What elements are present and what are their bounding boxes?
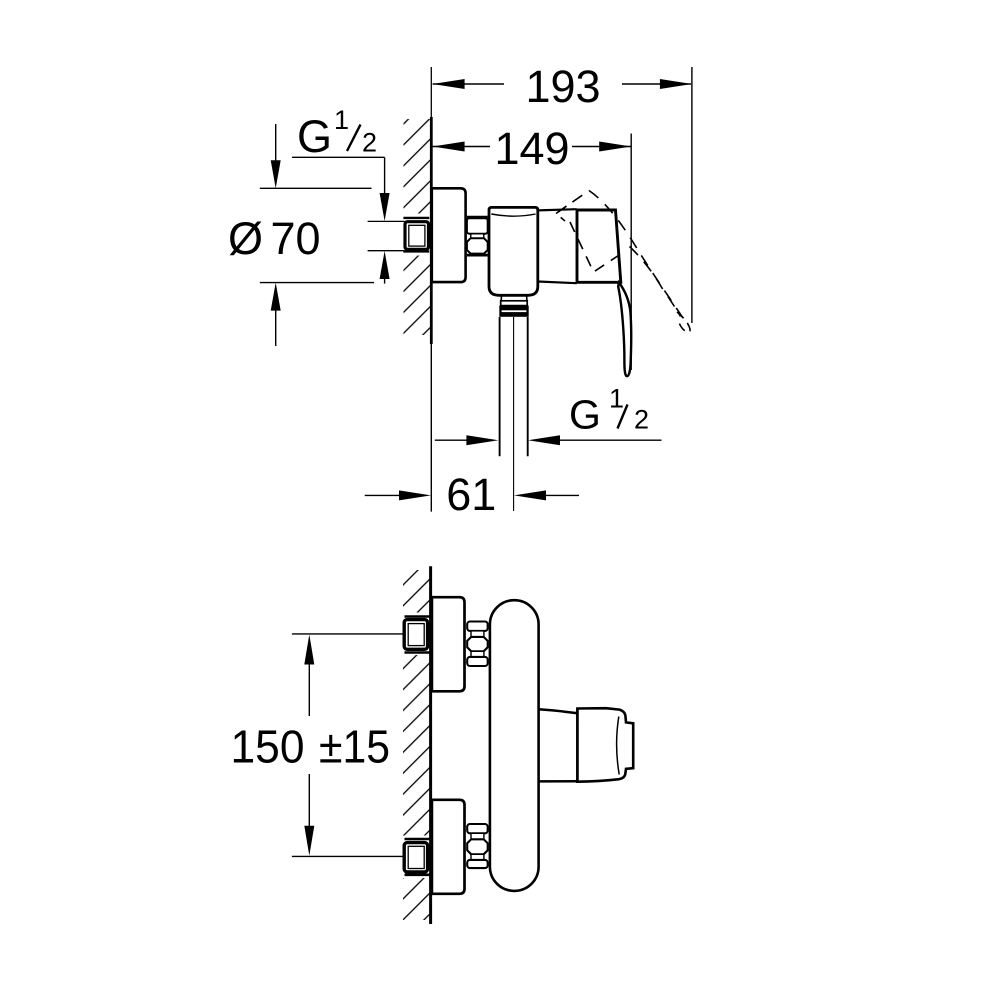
union nut bottom (front view) [467,824,488,868]
handle base (side view) [577,210,621,282]
shower hose lines [499,317,501,456]
dimension 61 [365,494,402,496]
svg-text:Ø: Ø [228,213,263,264]
svg-text:70: 70 [271,213,321,264]
thread tick lines (side view inlet) [368,220,405,222]
G 1/2 lower arrow (pointing up to tick) [380,251,390,279]
hatch gaps around fittings (front view) [401,613,431,656]
outlet collar [501,301,528,306]
inlet fitting square (side view) [428,222,430,249]
svg-text:149: 149 [494,123,569,174]
dashed lever in raised position [556,191,690,333]
svg-text:193: 193 [525,61,600,112]
dimension 150 extension lines [292,633,405,635]
inlet fitting square top (front view) [428,622,430,648]
valve body (side view) [489,207,538,295]
svg-text:G: G [297,111,332,162]
dimension Ø70 top arrow [275,124,277,162]
G 1/2 hose dimension line [435,439,471,441]
svg-text:2: 2 [634,405,649,435]
union nut top (front view) [467,622,488,667]
escutcheon bottom (front view) [432,800,465,894]
dimension Ø70 extension lines [260,187,372,189]
svg-text:2: 2 [362,128,377,158]
svg-text:G: G [569,392,601,438]
svg-text:±15: ±15 [319,721,390,773]
label G 1/2 leader line (top) [292,156,385,158]
escutcheon top (front view) [432,597,465,691]
wall hatching (front view) [403,570,431,920]
svg-text:1: 1 [609,384,624,414]
inlet fitting square bottom (front view) [428,845,430,870]
dimension 193 line and arrows [433,83,504,85]
outlet neck [500,295,502,301]
svg-text:150: 150 [231,721,305,773]
wall line (front view) [429,566,432,924]
knob face arc [617,717,620,775]
union nut (side view) [467,217,488,255]
cartridge stem (front view) [538,709,577,713]
svg-text:1: 1 [334,105,349,135]
handle lever blade (side view) [618,283,631,377]
wall line (side view) [430,67,432,119]
hose centre line / 61 extension [513,317,515,511]
dimension Ø70 bottom arrow [271,283,281,311]
escutcheon (side view) [432,188,466,282]
hatch gap around inlet fitting (side view) [400,214,431,256]
dimension 149 line and arrows [433,146,490,148]
handle knob (front view) [577,708,633,782]
valve body top face arc [491,214,535,216]
svg-text:61: 61 [446,469,496,520]
wall hatching (side view) [404,119,432,335]
faucet body pill (front view) [490,600,539,891]
dimension 193 extension line right [691,67,693,323]
dimension 150 vertical line and arrows [308,662,310,716]
hose union nut [499,306,528,317]
knob/stem separation [576,709,578,782]
dimension 149 extension line right [630,134,632,371]
cartridge adapter (side view) [538,209,577,210]
